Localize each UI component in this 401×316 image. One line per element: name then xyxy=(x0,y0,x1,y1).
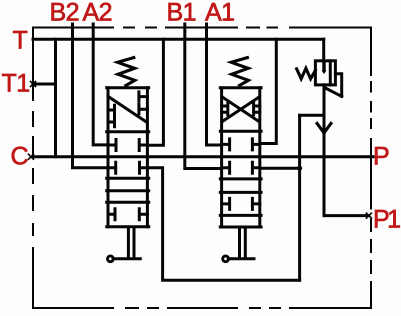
svg-text:C: C xyxy=(11,143,29,171)
x-mark C xyxy=(29,154,34,159)
valve V2 sq3 ports xyxy=(222,162,260,173)
port line B2 xyxy=(73,24,107,168)
wire riser to relief outlet xyxy=(300,114,324,117)
valve V1 envelope xyxy=(108,88,147,227)
port line A1 xyxy=(207,24,221,145)
valve V2 envelope xyxy=(222,88,260,227)
wire valve1 T port xyxy=(149,39,164,145)
valve V2 sq2 ports xyxy=(222,139,260,150)
svg-text:T: T xyxy=(13,27,28,55)
valve V1 stem xyxy=(128,228,134,257)
valve V2 spring xyxy=(231,58,248,86)
valve V1 sq1 left ports xyxy=(108,105,115,127)
valve V2 sq1 right ports xyxy=(254,103,260,115)
wire T drop to C rail (left) xyxy=(54,39,57,157)
junction dot xyxy=(297,166,302,171)
wire bottom loop riser xyxy=(298,115,301,280)
relief valve RV body xyxy=(315,61,335,85)
valve V1 sq1 right ports xyxy=(139,92,148,114)
relief valve spring xyxy=(297,68,316,79)
valve V1 sq3 ports xyxy=(108,162,147,173)
valve V1 sq1 diagonal xyxy=(109,97,147,123)
svg-text:A1: A1 xyxy=(205,0,235,27)
valve V1 sq2 ports xyxy=(108,140,147,151)
port line B1 xyxy=(185,24,221,169)
valve V1 spring xyxy=(118,58,135,86)
node T1 line xyxy=(33,83,56,86)
svg-text:P: P xyxy=(373,143,389,171)
wire relief outlet down to P1 corner xyxy=(323,85,326,216)
valve V1 foot xyxy=(113,257,140,260)
relief valve pin xyxy=(322,62,325,71)
node T : tank rail xyxy=(33,38,324,41)
wire valve2 sq3 right xyxy=(261,167,300,170)
relief valve pilot line xyxy=(325,74,342,97)
svg-text:B1: B1 xyxy=(167,0,197,27)
flow arrow (down chevron) xyxy=(317,123,331,132)
valve V2 stem xyxy=(240,228,246,257)
node P1 line xyxy=(324,214,369,217)
svg-text:B2: B2 xyxy=(50,0,80,27)
x-mark P1 xyxy=(366,213,371,218)
valve V2 sq4 ports xyxy=(222,198,260,209)
wire T down to relief inlet xyxy=(322,39,325,61)
valve V2 sq1 left ports xyxy=(222,103,228,115)
wire valve1 sq3 to bottom loop xyxy=(149,168,300,280)
svg-text:A2: A2 xyxy=(83,0,113,27)
wire valve2 T port xyxy=(261,39,276,143)
relief valve inner line xyxy=(329,61,332,85)
border frame (dash-dot subplate boundary) xyxy=(33,28,371,309)
valve V2 foot xyxy=(228,257,254,260)
port line A2 xyxy=(93,24,107,145)
valve V1 sq4 ports xyxy=(108,209,147,220)
node C-P rail xyxy=(33,155,373,158)
x-mark T1 xyxy=(31,82,36,87)
svg-text:T1: T1 xyxy=(2,70,30,98)
svg-text:P1: P1 xyxy=(373,206,400,234)
valve V2 sq1 X passage xyxy=(222,97,259,122)
